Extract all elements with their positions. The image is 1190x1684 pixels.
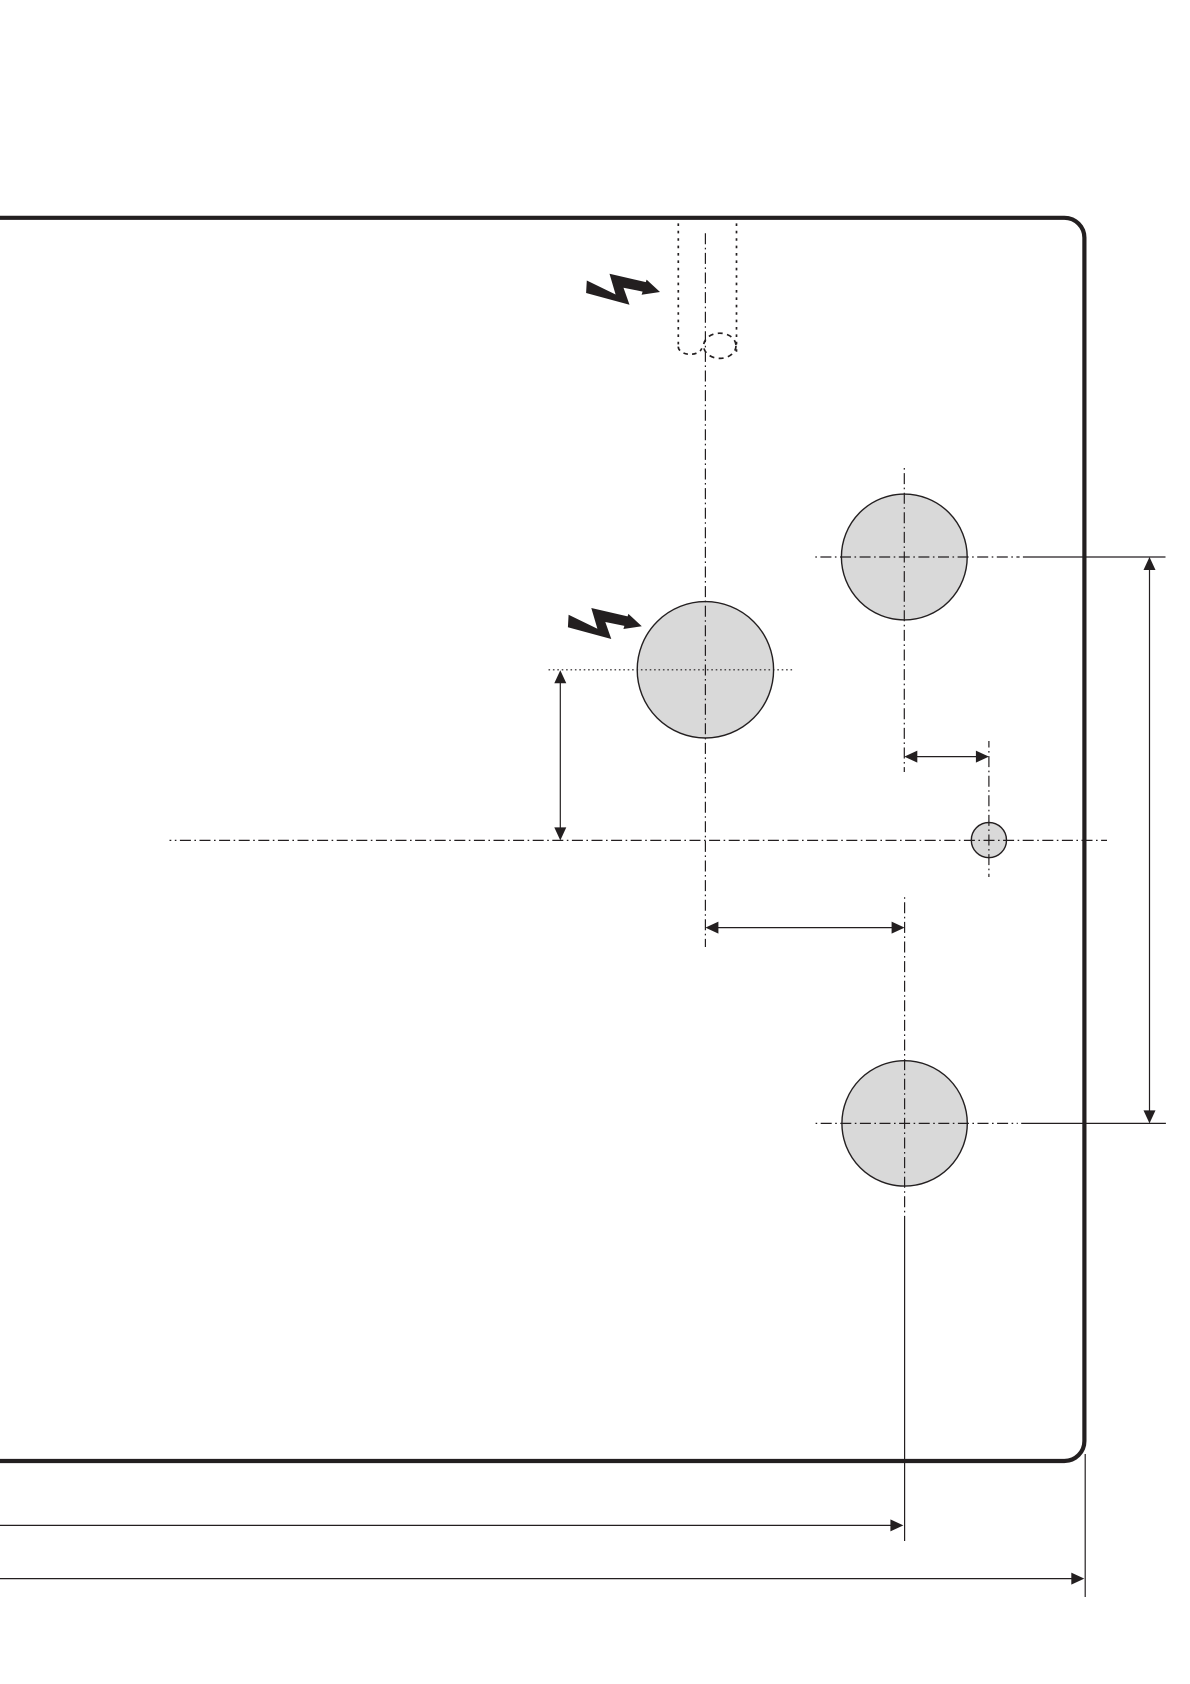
centerline: lower circle horizontal — [815, 1122, 1018, 1124]
centerline: small circle vertical — [988, 741, 990, 877]
hole lower circle — [842, 1061, 967, 1186]
cable slot bottom arc — [678, 347, 702, 355]
dimension: bottom first horizontal arrow — [0, 1519, 903, 1531]
cable slot dotted line right — [736, 216, 738, 352]
dimension: horizontal small double arrow (upper right) — [904, 751, 989, 763]
extension line: lower circle vertical solid — [904, 1226, 906, 1541]
extension line: right border vertical solid — [1084, 1454, 1086, 1597]
lightning bolt top — [586, 274, 660, 305]
cable end dashed ellipse — [704, 333, 736, 358]
dimension: vertical right double arrow (between upper and lower circle axes) — [1144, 557, 1156, 1123]
lightning bolt middle — [568, 608, 642, 639]
dimension: horizontal double arrow between middle and lower circle centerlines — [705, 922, 904, 934]
cable slot dotted line left — [677, 216, 679, 347]
hole middle circle — [637, 602, 773, 738]
centerline: upper circle vertical — [903, 468, 905, 772]
centerline: upper circle horizontal — [815, 556, 1020, 558]
extension line: lower circle horizontal solid — [1021, 1122, 1166, 1124]
hole upper circle — [841, 494, 967, 620]
extension line: upper circle horizontal solid — [1023, 556, 1166, 558]
dimension: vertical left double arrow — [554, 670, 566, 840]
centerline: lower circle vertical — [904, 894, 906, 1226]
hole small circle — [971, 823, 1006, 858]
dimension: bottom second horizontal arrow — [0, 1573, 1084, 1585]
centerline: middle circle horizontal (dotted) — [549, 669, 795, 671]
centerline: main horizontal axis — [170, 839, 1108, 841]
panel outline (rounded rectangle, cut off at left) — [0, 218, 1084, 1461]
centerline: middle circle vertical — [704, 230, 706, 947]
